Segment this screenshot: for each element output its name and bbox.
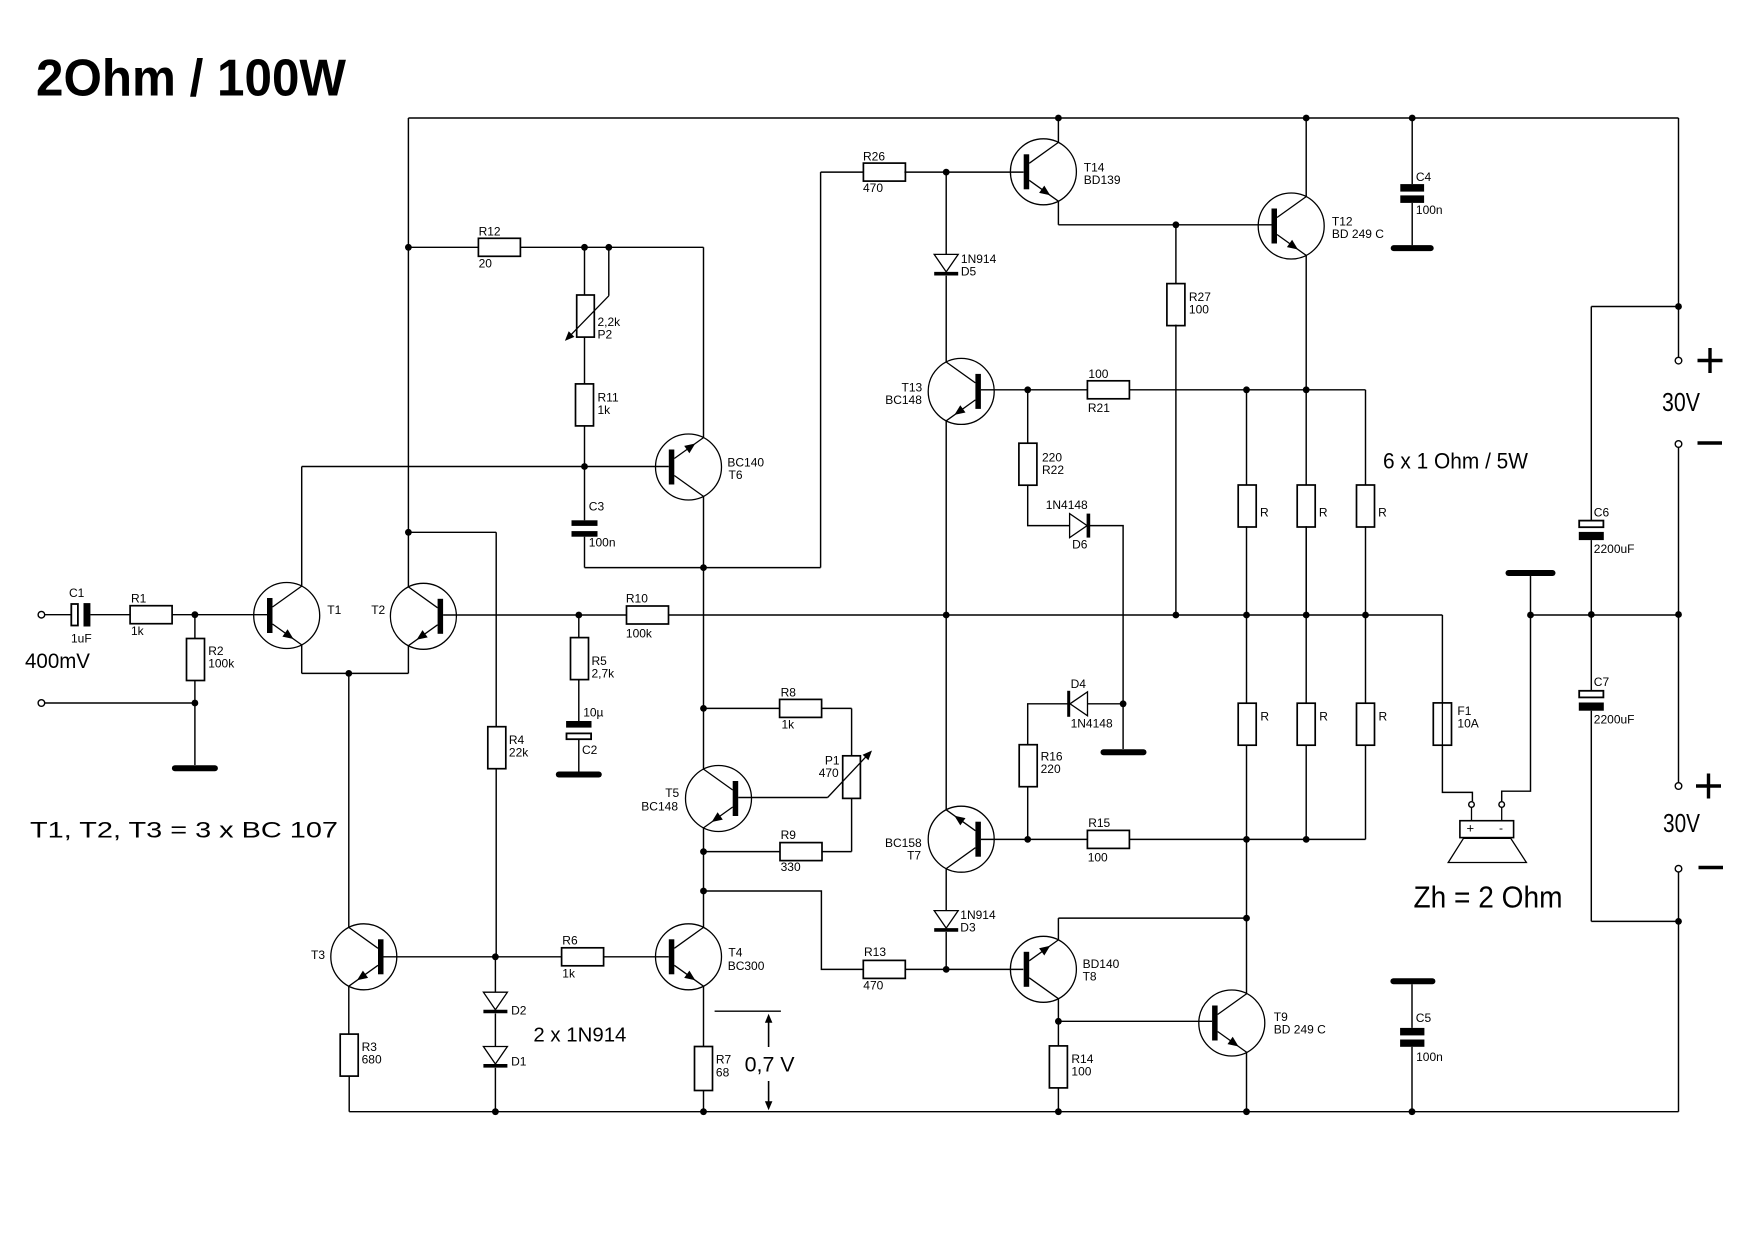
svg-text:100n: 100n <box>589 536 616 550</box>
svg-text:1k: 1k <box>782 718 796 732</box>
capacitor C6 2200uF <box>1579 521 1604 541</box>
svg-text:T3: T3 <box>311 948 325 962</box>
wire R5 top lead <box>578 615 580 638</box>
wire top rail right drop <box>1678 118 1680 357</box>
node R4 branch junction <box>405 529 412 536</box>
wire R1 to T1 base <box>172 614 267 616</box>
speaker terminal minus <box>1499 802 1505 808</box>
wire R8 to P1 top <box>851 708 853 755</box>
wire R col1 row2 bottom <box>1246 745 1248 839</box>
wire T1 collector to T6 base <box>302 466 669 468</box>
node R column3 on output rail <box>1362 612 1369 619</box>
resistor R14 <box>1049 1046 1067 1088</box>
svg-text:R12: R12 <box>479 225 501 239</box>
wire T7 emitter column <box>945 615 947 810</box>
node right column on rail <box>1675 611 1682 618</box>
transistor T2 BC107 <box>390 583 456 649</box>
diode D5 1N914 <box>934 254 958 273</box>
wire R2 bottom lead <box>194 681 196 704</box>
wire T1 collector column <box>301 467 303 587</box>
svg-text:R26: R26 <box>863 150 885 164</box>
dimension arrow up <box>765 1014 773 1047</box>
node C4 on top rail <box>1409 115 1416 122</box>
node R column1 on output rail <box>1243 612 1250 619</box>
node R column1 top <box>1243 386 1250 393</box>
resistor R2 <box>187 639 205 681</box>
resistor R15 <box>1087 830 1129 848</box>
wire R26 left lead <box>821 171 865 173</box>
node C6 C7 midpoint on rail <box>1588 611 1595 618</box>
wire ground node stub <box>1122 704 1124 749</box>
wire T6 emitter column upper <box>703 247 705 437</box>
wire P2 to R11 <box>584 337 586 384</box>
wire D4 to ground node <box>1088 703 1124 705</box>
svg-text:R21: R21 <box>1088 401 1110 415</box>
svg-text:R10: R10 <box>626 592 648 606</box>
transistor T1 BC107 <box>254 583 320 649</box>
node R11 C3 T6 base junction <box>581 463 588 470</box>
node D4 D6 ground junction <box>1120 700 1127 707</box>
wire minus terminal to mid rail <box>1678 447 1680 614</box>
resistor R row2 col1 <box>1238 703 1256 745</box>
node R13 branch junction <box>700 888 707 895</box>
potentiometer P2 <box>565 295 609 341</box>
svg-text:C1: C1 <box>69 586 85 600</box>
wire R col1 row2 top <box>1246 615 1248 703</box>
wire C7 bottom column <box>1590 711 1592 922</box>
svg-text:1uF: 1uF <box>71 632 92 646</box>
wire R22 top lead <box>1027 390 1029 443</box>
wire emitters junction to T3 collector <box>348 673 350 927</box>
svg-text:1k: 1k <box>598 403 612 417</box>
wire R27 top lead <box>1175 225 1177 285</box>
svg-text:BD139: BD139 <box>1084 173 1121 187</box>
svg-text:30V: 30V <box>1662 387 1701 417</box>
wire F1 to speaker plus <box>1442 745 1472 801</box>
wire R col1 row1 bottom <box>1246 526 1248 615</box>
transistor T9 BD249C <box>1199 990 1265 1056</box>
svg-text:C2: C2 <box>582 743 598 757</box>
wire D3 to T8 base wire <box>945 932 947 970</box>
svg-text:470: 470 <box>863 979 883 993</box>
wire R4 top column <box>495 532 497 727</box>
ground below C2 <box>559 772 599 778</box>
wire mid rail to +30V lower <box>1678 615 1680 783</box>
wire T12 emitter column <box>1305 255 1307 615</box>
speaker terminal plus <box>1469 802 1475 808</box>
svg-text:30V: 30V <box>1663 808 1701 838</box>
node R5 on output rail <box>575 612 582 619</box>
node C5 on bottom rail <box>1409 1108 1416 1115</box>
svg-text:R22: R22 <box>1042 463 1064 477</box>
svg-text:R8: R8 <box>781 686 797 700</box>
svg-text:T7: T7 <box>907 849 921 863</box>
wire D1 to bottom rail <box>494 1068 496 1112</box>
transistor T3 BC107 <box>331 924 397 990</box>
svg-text:Zh = 2 Ohm: Zh = 2 Ohm <box>1414 880 1563 914</box>
node T14 collector on top rail <box>1055 115 1062 122</box>
svg-text:R6: R6 <box>562 934 578 948</box>
resistor R26 <box>863 163 905 181</box>
wire D6 to D4 node <box>1088 526 1123 704</box>
wire ground to speaker minus <box>1502 576 1531 801</box>
svg-text:R: R <box>1378 506 1387 520</box>
svg-text:100n: 100n <box>1416 1050 1443 1064</box>
wire R27 bottom column to output rail <box>1175 325 1177 615</box>
wire R9 right lead <box>821 851 851 853</box>
wire T1 emitter to junction <box>302 672 349 674</box>
wire D5 cathode to T13 collector <box>945 276 947 362</box>
wire T2 emitter lead <box>407 646 409 674</box>
wire R15 right segment <box>1130 838 1366 840</box>
wire R col3 row2 top <box>1365 615 1367 703</box>
wire R21 right to R columns <box>1130 389 1366 391</box>
wire C2 bottom lead <box>578 739 580 771</box>
svg-text:400mV: 400mV <box>25 650 90 673</box>
diode D4 1N4148 <box>1069 691 1088 717</box>
ground below D4 <box>1104 749 1144 755</box>
wire C6 column upper <box>1590 307 1592 521</box>
wire P2 wiper stub <box>608 247 610 295</box>
resistor R13 <box>863 960 905 978</box>
node R22 top junction <box>1024 386 1031 393</box>
wire R7 bottom lead <box>703 1091 705 1112</box>
svg-text:D4: D4 <box>1071 677 1087 691</box>
terminal +30V lower <box>1675 783 1682 790</box>
svg-text:1N4148: 1N4148 <box>1046 498 1088 512</box>
svg-text:100: 100 <box>1189 303 1209 317</box>
svg-text:D3: D3 <box>960 921 976 935</box>
potentiometer P1 <box>828 751 872 799</box>
svg-text:R15: R15 <box>1088 816 1110 830</box>
node bottom right corner junction <box>1675 918 1682 925</box>
wire R26 right to T14 base <box>904 171 1023 173</box>
wire C5 top lead <box>1411 984 1413 1028</box>
resistor R6 <box>562 948 604 966</box>
wire -30V lower to bottom corner <box>1678 872 1680 1112</box>
wire R col2 row1 bottom <box>1305 526 1307 615</box>
wire R col3 row2 bottom <box>1365 745 1367 839</box>
svg-text:R: R <box>1319 506 1328 520</box>
wire T9 emitter lead <box>1246 1052 1248 1111</box>
resistor R8 <box>780 699 822 717</box>
fuse F1 10A <box>1433 703 1451 745</box>
svg-text:R9: R9 <box>781 828 797 842</box>
wire T7 collector lead <box>945 869 947 911</box>
resistor R4 <box>488 727 506 769</box>
transistor T8 BD140 <box>1010 936 1076 1002</box>
wire R col3 row1 bottom <box>1365 526 1367 615</box>
svg-text:T1, T2, T3 = 3 x BC 107: T1, T2, T3 = 3 x BC 107 <box>30 818 338 843</box>
node R7 on bottom rail <box>700 1108 707 1115</box>
wire D2 to D1 <box>494 1014 496 1047</box>
svg-text:BD 249 C: BD 249 C <box>1332 227 1384 241</box>
node T12 emitter on R21 line <box>1303 386 1310 393</box>
resistor R3 <box>340 1034 358 1076</box>
svg-text:T2: T2 <box>371 603 385 617</box>
node R8 junction <box>700 705 707 712</box>
wire R col2 row2 top <box>1305 615 1307 703</box>
wire P1 bottom to R9 <box>851 798 853 851</box>
svg-text:P2: P2 <box>598 328 613 342</box>
wire R3 bottom lead <box>348 1076 350 1112</box>
wire C6 bottom to mid rail <box>1590 540 1592 614</box>
svg-text:2200uF: 2200uF <box>1594 542 1635 556</box>
ground input <box>175 765 215 771</box>
wire C3 bottom lead <box>584 537 586 568</box>
wire R16 bottom lead <box>1027 786 1029 839</box>
svg-text:T4: T4 <box>728 946 742 960</box>
svg-text:T5: T5 <box>665 786 679 800</box>
wire T9 collector lead <box>1246 918 1248 994</box>
node P2 top <box>581 244 588 251</box>
node T12 collector on top rail <box>1303 115 1310 122</box>
wire R2 top lead <box>194 615 196 639</box>
svg-text:D2: D2 <box>511 1004 527 1018</box>
wire T8 collector to T9 base <box>1058 1020 1212 1022</box>
wire C7 bottom to right column <box>1591 920 1678 922</box>
svg-text:D6: D6 <box>1072 538 1088 552</box>
wire top positive rail <box>408 117 1678 119</box>
svg-text:220: 220 <box>1041 762 1061 776</box>
diode D3 1N914 <box>934 911 958 930</box>
wire C4 top lead <box>1411 118 1413 184</box>
node D5 top junction <box>943 169 950 176</box>
svg-text:C5: C5 <box>1416 1011 1432 1025</box>
wire R9 left lead <box>704 851 781 853</box>
svg-text:R: R <box>1260 710 1269 724</box>
node T9 emitter on bottom rail <box>1243 1108 1250 1115</box>
wire output rail <box>443 614 1442 616</box>
wire T8 collector lead <box>1057 999 1059 1022</box>
wire R11 junction to C3 <box>584 467 586 521</box>
wire R8 left lead <box>704 707 780 709</box>
resistor R1 <box>130 606 172 624</box>
wire P2 top lead <box>584 247 586 295</box>
resistor R21 <box>1087 381 1129 399</box>
svg-text:100: 100 <box>1088 851 1108 865</box>
wire T2 emitter to junction <box>349 672 409 674</box>
node T8 collector R14 junction <box>1055 1018 1062 1025</box>
wire T5 base to P1 wiper <box>738 797 827 799</box>
wire C5 bottom lead <box>1411 1047 1413 1112</box>
svg-text:BD 249 C: BD 249 C <box>1274 1023 1326 1037</box>
svg-text:470: 470 <box>819 766 839 780</box>
node T6 collector junction <box>700 564 707 571</box>
svg-text:680: 680 <box>362 1053 382 1067</box>
resistor R row2 col2 <box>1297 703 1315 745</box>
wire T5 emitter to T4 branch <box>703 852 705 891</box>
resistor R12 <box>478 238 520 256</box>
svg-text:100n: 100n <box>1416 203 1443 217</box>
node R1 R2 T1 junction <box>192 611 199 618</box>
wire T8 emitter to T9 collector column <box>1058 917 1246 919</box>
wire D5 anode lead <box>945 172 947 254</box>
node R2 ground junction <box>192 700 199 707</box>
wire R26 left column <box>820 172 822 567</box>
svg-text:1k: 1k <box>131 624 145 638</box>
capacitor C3 <box>572 520 598 536</box>
wire T6 collector column to R8 node <box>703 568 705 709</box>
wire junction to input ground <box>194 703 196 765</box>
svg-text:+: + <box>1467 821 1475 836</box>
transistor T6 BC140 <box>656 434 722 500</box>
node T3 base D2 junction <box>492 953 499 960</box>
node D3 on T8 base wire <box>943 966 950 973</box>
wire R column3 top drop <box>1365 390 1367 486</box>
wire T14 emitter lead <box>1057 201 1059 225</box>
svg-text:C7: C7 <box>1594 675 1610 689</box>
resistor R27 <box>1167 284 1185 326</box>
svg-text:20: 20 <box>479 257 493 271</box>
resistor R10 <box>627 606 669 624</box>
resistor R5 <box>571 638 589 680</box>
wire R22 to D6 <box>1028 486 1070 526</box>
wire output rail to F1 <box>1441 615 1443 703</box>
wire T4 emitter lead <box>703 986 705 1046</box>
minus sign lower supply <box>1699 866 1724 869</box>
svg-text:BC148: BC148 <box>641 800 678 814</box>
svg-text:C3: C3 <box>589 500 605 514</box>
svg-text:6 x 1 Ohm / 5W: 6 x 1 Ohm / 5W <box>1383 449 1528 474</box>
capacitor C4 <box>1400 184 1424 203</box>
svg-text:T1: T1 <box>327 603 341 617</box>
svg-text:T8: T8 <box>1083 970 1097 984</box>
node R col2 on R15 line <box>1303 836 1310 843</box>
svg-text:R: R <box>1379 710 1388 724</box>
wire T4 collector lead <box>703 891 705 927</box>
svg-text:10A: 10A <box>1457 717 1478 731</box>
svg-text:2200uF: 2200uF <box>1594 713 1635 727</box>
resistor R9 <box>780 843 822 861</box>
transistor T12 BD249C <box>1258 193 1324 259</box>
svg-text:D1: D1 <box>511 1055 527 1069</box>
svg-text:100k: 100k <box>208 657 235 671</box>
wire junction to D2 <box>494 957 496 992</box>
svg-text:330: 330 <box>781 860 801 874</box>
wire T7 base to R15 <box>981 838 1087 840</box>
wire branch to R4 column <box>408 531 496 533</box>
wire T8 emitter lead <box>1057 918 1059 940</box>
wire T1 emitter lead <box>301 645 303 674</box>
svg-text:2,7k: 2,7k <box>592 667 616 681</box>
resistor R row1 col3 <box>1357 485 1375 527</box>
resistor R row2 col3 <box>1357 703 1375 745</box>
wire R12 right lead to T6 emitter column <box>521 246 704 248</box>
svg-text:68: 68 <box>716 1066 730 1080</box>
node speaker ground stem on rail <box>1527 612 1534 619</box>
wire R8 node to T5 collector <box>703 708 705 769</box>
svg-text:R: R <box>1319 710 1328 724</box>
transistor T5 BC148 <box>686 766 752 832</box>
node R col1 on R15 line <box>1243 836 1250 843</box>
plus sign upper supply <box>1698 348 1723 373</box>
wire mid rail to C7 top <box>1590 615 1592 691</box>
svg-text:C6: C6 <box>1594 506 1610 520</box>
svg-text:100: 100 <box>1088 367 1108 381</box>
svg-text:R7: R7 <box>716 1053 732 1067</box>
wire R col1 upper lead <box>1246 390 1248 486</box>
svg-text:10µ: 10µ <box>583 706 603 720</box>
node T9 collector junction <box>1243 915 1250 922</box>
node R14 on bottom rail <box>1055 1108 1062 1115</box>
wire T14 emitter to T12 base <box>1058 224 1271 226</box>
wire branch to C6 column <box>1591 306 1678 308</box>
transistor T14 BD139 <box>1010 139 1076 205</box>
wire R12 left lead <box>408 246 478 248</box>
wire T14 collector lead <box>1057 118 1059 142</box>
diode D1 1N914 <box>483 1047 507 1066</box>
plus sign lower supply <box>1696 774 1721 799</box>
dimension reference line 0.7V <box>715 1010 781 1012</box>
diode D6 1N4148 <box>1070 514 1089 538</box>
resistor R16 <box>1019 745 1037 787</box>
dimension arrow down <box>765 1081 773 1110</box>
resistor R11 <box>576 384 594 426</box>
wire ground rail right segment <box>1531 614 1679 616</box>
node R27 top junction <box>1173 221 1180 228</box>
wire bottom negative rail <box>349 1111 1678 1113</box>
wire R6 to T4 base <box>604 956 669 958</box>
capacitor C7 2200uF <box>1579 691 1604 711</box>
wire input to C1 <box>45 614 71 616</box>
wire R14 bottom lead <box>1057 1088 1059 1112</box>
wire R14 top lead <box>1057 1021 1059 1046</box>
wire T13 base to R21 <box>981 389 1087 391</box>
ground below C4 <box>1394 245 1431 251</box>
svg-text:2 x 1N914: 2 x 1N914 <box>533 1025 626 1047</box>
wire R5 to C2 <box>578 680 580 721</box>
ground output <box>1509 570 1553 576</box>
wire T6 collector lead <box>703 496 705 567</box>
svg-text:100k: 100k <box>626 627 653 641</box>
resistor R row1 col2 <box>1297 485 1315 527</box>
svg-text:R1: R1 <box>131 592 147 606</box>
speaker Zh body <box>1448 807 1526 862</box>
wire lower input to junction <box>45 702 195 704</box>
node T1 T2 emitters junction <box>345 670 352 677</box>
node R9 junction <box>700 848 707 855</box>
input terminal upper <box>38 611 45 618</box>
wire R15 rail to T9 col <box>1246 839 1248 918</box>
node P2 wiper top <box>605 244 612 251</box>
capacitor C1 1uF <box>71 603 90 626</box>
resistor R7 <box>695 1047 713 1091</box>
wire R11 bottom lead <box>584 426 586 467</box>
terminal -30V lower <box>1675 865 1682 872</box>
wire C3 row to R26 column <box>585 567 821 569</box>
node R column2 on output rail <box>1303 612 1310 619</box>
node R12 left junction <box>405 244 412 251</box>
wire R4 bottom column <box>495 768 497 957</box>
svg-text:C4: C4 <box>1416 170 1432 184</box>
svg-text:0,7 V: 0,7 V <box>745 1054 795 1077</box>
wire T12 collector lead <box>1305 118 1307 197</box>
resistor R row1 col1 <box>1238 485 1256 527</box>
node R16 bottom junction <box>1024 836 1031 843</box>
svg-text:BC300: BC300 <box>728 959 765 973</box>
svg-text:BC148: BC148 <box>885 393 922 407</box>
capacitor C2 electrolytic <box>566 721 591 739</box>
minus sign upper supply <box>1698 441 1723 444</box>
transistor T13 BC148 <box>928 358 994 424</box>
svg-text:100: 100 <box>1071 1065 1091 1079</box>
wire C4 bottom lead <box>1411 203 1413 245</box>
diode D2 1N914 <box>483 992 507 1011</box>
svg-text:-: - <box>1499 821 1503 835</box>
ground above C5 <box>1393 978 1432 984</box>
wire T3 collector lead <box>348 926 350 928</box>
